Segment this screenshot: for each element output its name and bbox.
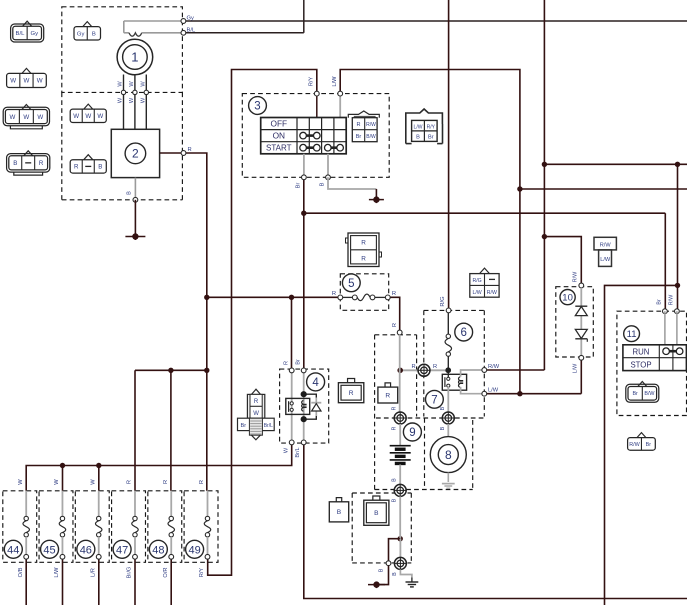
component K7 starter relay (7) <box>426 390 444 408</box>
wire Br/L (relay 4 down) and bottom rail <box>304 442 687 598</box>
svg-text:R: R <box>163 480 169 484</box>
box component 48 <box>148 491 182 563</box>
wire B/L (magneto up) <box>183 32 303 34</box>
svg-text:R/Y: R/Y <box>427 124 436 130</box>
svg-text:R: R <box>433 364 437 370</box>
svg-text:R: R <box>254 399 259 405</box>
svg-text:10: 10 <box>562 293 573 304</box>
wires W x3 magneto to rectifier <box>123 75 125 130</box>
svg-text:L/W: L/W <box>472 290 481 296</box>
component U2 rectifier/regulator (2) <box>111 129 159 177</box>
svg-text:W: W <box>140 81 146 87</box>
svg-text:L/R: L/R <box>90 568 96 577</box>
svg-text:W: W <box>90 479 96 485</box>
svg-text:B: B <box>127 191 133 195</box>
svg-text:46: 46 <box>80 544 92 556</box>
ground battery to frame <box>368 584 385 586</box>
svg-text:B: B <box>416 135 420 141</box>
wire R to fuse 5 <box>207 296 340 298</box>
svg-text:Gy: Gy <box>187 16 195 22</box>
svg-text:W: W <box>140 97 146 103</box>
svg-text:B: B <box>440 426 446 430</box>
wire Gy (magneto to CDI) <box>183 20 687 22</box>
svg-text:STOP: STOP <box>630 360 651 369</box>
svg-text:44: 44 <box>7 544 19 556</box>
wires below ignition coils 44-48 <box>25 557 27 605</box>
svg-text:L/W: L/W <box>332 76 338 87</box>
box component 3 (main switch) <box>242 94 389 178</box>
svg-text:R: R <box>392 426 398 430</box>
svg-text:R: R <box>332 291 336 297</box>
component D10 diode block (10) <box>560 290 575 305</box>
svg-text:START: START <box>266 144 292 153</box>
wire B rectifier to ground <box>134 178 136 200</box>
wire R to relay 4 <box>291 297 293 370</box>
fuse case R R (spare) <box>348 233 379 267</box>
wire R/W vertical <box>543 0 545 368</box>
svg-text:R: R <box>188 147 192 153</box>
ground main switch <box>369 199 384 201</box>
svg-text:L/W: L/W <box>488 388 499 394</box>
svg-text:Br: Br <box>646 442 652 448</box>
svg-text:49: 49 <box>188 544 200 556</box>
component BT9 battery (9) <box>403 423 421 441</box>
wire Br (main switch to stop switch) <box>303 177 305 370</box>
ground starter motor <box>447 473 449 482</box>
svg-text:R/W: R/W <box>488 364 500 370</box>
svg-text:W: W <box>129 97 135 103</box>
svg-text:W: W <box>37 78 43 85</box>
svg-text:R/W: R/W <box>487 290 497 296</box>
svg-text:B/L: B/L <box>187 27 196 33</box>
svg-text:R/G: R/G <box>440 296 446 306</box>
svg-text:R: R <box>385 392 390 399</box>
svg-text:B/L: B/L <box>16 31 26 37</box>
connector B-dash-R <box>24 151 33 156</box>
wire B to ground <box>328 177 376 189</box>
fuse cover R (single) <box>385 383 391 387</box>
svg-text:4: 4 <box>312 377 319 389</box>
svg-text:R/Y: R/Y <box>308 77 314 87</box>
component M8 starter motor (8) <box>442 412 454 424</box>
svg-text:3: 3 <box>254 101 260 113</box>
svg-text:B/W: B/W <box>366 134 376 140</box>
svg-text:R: R <box>349 390 354 397</box>
wire R/W to diode block <box>544 237 581 286</box>
relay 4 body <box>286 398 310 414</box>
svg-text:8: 8 <box>445 448 452 462</box>
connector R-W-Br-BrL cross <box>252 389 261 394</box>
svg-text:B: B <box>320 182 326 186</box>
wire R out of rectifier <box>160 152 184 154</box>
svg-text:R: R <box>361 256 366 263</box>
svg-text:ON: ON <box>273 131 285 141</box>
fuse cover R (double) <box>348 379 355 383</box>
svg-text:Br: Br <box>656 299 662 305</box>
wire W bus <box>26 442 292 490</box>
box components 8,9 divider <box>376 417 484 419</box>
svg-text:W: W <box>129 81 135 87</box>
svg-text:6: 6 <box>460 327 466 339</box>
svg-text:W: W <box>54 479 60 485</box>
svg-text:R: R <box>411 364 415 370</box>
connector W-W-W single <box>22 68 31 73</box>
box component 10 (diode) <box>556 287 594 357</box>
svg-text:W: W <box>73 113 79 120</box>
component K4 relay (4) <box>307 373 325 391</box>
connector W-W-W double <box>22 105 31 110</box>
battery cells <box>390 445 411 447</box>
svg-text:B: B <box>440 406 446 410</box>
switch contacts ON row <box>303 134 317 137</box>
connector circles Gy B/L <box>181 19 186 24</box>
component F5 fuse (5) <box>342 274 360 292</box>
svg-text:R/W: R/W <box>366 122 376 128</box>
relay 4 lead wires <box>291 370 293 442</box>
svg-text:48: 48 <box>152 544 164 556</box>
svg-text:47: 47 <box>116 544 128 556</box>
svg-text:W: W <box>37 114 43 121</box>
svg-text:W: W <box>97 113 103 120</box>
svg-text:R: R <box>392 291 396 297</box>
svg-text:11: 11 <box>627 329 637 340</box>
connector W-W-W inside box 2 <box>84 104 93 109</box>
main switch wires into table <box>316 94 318 118</box>
wire R/W right vertical to stop switch <box>677 164 679 311</box>
svg-text:B: B <box>392 498 398 502</box>
svg-text:R/W: R/W <box>573 271 579 282</box>
connector Br-B/W <box>638 382 647 387</box>
box component 9 (battery) <box>375 334 417 336</box>
pickup coil loops <box>123 21 125 33</box>
node junctions <box>542 162 547 167</box>
box component 5 (fuse) <box>340 274 388 311</box>
svg-text:W: W <box>18 479 24 485</box>
box component 1 (AC magneto) <box>62 7 183 93</box>
stop switch table <box>623 345 687 371</box>
svg-text:45: 45 <box>43 544 55 556</box>
box component 49 <box>184 491 218 563</box>
svg-text:O/B: O/B <box>18 567 24 577</box>
svg-text:Gy: Gy <box>31 31 39 37</box>
svg-text:B: B <box>92 31 96 37</box>
diode 1 <box>575 305 587 307</box>
svg-text:Br/L: Br/L <box>295 447 301 457</box>
svg-text:R/W: R/W <box>600 242 612 248</box>
svg-text:B: B <box>374 510 379 517</box>
svg-text:B: B <box>379 568 385 572</box>
bullet battery positive <box>394 412 406 424</box>
box component 4 (starting circuit cut-off relay) <box>280 369 329 443</box>
svg-text:Br/L: Br/L <box>264 423 273 429</box>
svg-text:R: R <box>356 122 360 128</box>
wire R/Y (main switch feed) <box>208 70 317 576</box>
box component 46 <box>75 491 109 563</box>
connector R-R/W-Br-B/W <box>348 111 379 118</box>
wire R/W branch right <box>544 163 687 165</box>
box component 2 (rectifier/regulator) <box>61 92 63 199</box>
svg-text:Br: Br <box>356 134 362 140</box>
svg-text:W: W <box>9 114 15 121</box>
bullet connector R (battery lead) <box>400 369 448 371</box>
svg-text:R: R <box>283 361 289 365</box>
bullet starter cable <box>399 539 401 558</box>
svg-text:B: B <box>337 509 342 516</box>
connector Gy-B <box>83 22 92 27</box>
svg-text:R: R <box>199 480 205 484</box>
svg-text:R: R <box>361 240 366 247</box>
svg-text:W: W <box>253 411 259 417</box>
svg-text:1: 1 <box>131 50 138 65</box>
box component 45 <box>39 491 73 563</box>
wire R/W relay to main harness <box>484 369 544 371</box>
box components 6,7 (fuse and starter relay) <box>424 309 485 311</box>
svg-text:B: B <box>13 160 17 167</box>
svg-text:W: W <box>118 81 124 87</box>
svg-text:W: W <box>24 78 30 85</box>
box component 44 <box>3 491 37 563</box>
svg-text:B: B <box>392 572 398 576</box>
stop switch contacts <box>666 350 680 353</box>
svg-text:Br: Br <box>296 359 302 365</box>
svg-text:R: R <box>39 160 44 167</box>
main switch lower wires Br and B <box>303 154 305 178</box>
svg-text:R: R <box>392 406 398 410</box>
svg-text:Br: Br <box>632 391 638 397</box>
svg-text:R: R <box>392 323 398 327</box>
svg-text:7: 7 <box>431 394 437 406</box>
box component 11 (engine stop switch) <box>617 311 687 415</box>
svg-text:2: 2 <box>132 147 139 161</box>
svg-text:L/W: L/W <box>54 567 60 578</box>
svg-text:W: W <box>23 114 29 121</box>
wire L/W relay row <box>484 393 581 395</box>
wire L/W branch right <box>520 188 687 190</box>
svg-text:Gy: Gy <box>77 31 85 37</box>
svg-text:B/W: B/W <box>644 391 655 397</box>
component U1 AC magneto (1) <box>117 39 153 75</box>
svg-text:L/W: L/W <box>600 257 611 263</box>
svg-text:5: 5 <box>348 278 354 290</box>
svg-text:W: W <box>85 113 91 120</box>
svg-text:R: R <box>127 480 133 484</box>
component S3 main switch (3) <box>249 97 267 115</box>
svg-text:Br: Br <box>241 423 247 429</box>
svg-text:L/W: L/W <box>573 363 579 373</box>
svg-text:R/Y: R/Y <box>199 568 205 578</box>
component S11 engine stop switch (11) <box>624 326 640 342</box>
svg-text:R: R <box>74 164 79 171</box>
wire R (rectifier output) <box>184 153 207 491</box>
svg-text:L/W: L/W <box>414 124 423 130</box>
relay 7 coil leads <box>461 370 485 377</box>
svg-text:W: W <box>283 447 289 453</box>
wire B battery negative <box>389 539 401 564</box>
svg-text:B: B <box>392 478 398 482</box>
svg-text:RUN: RUN <box>633 348 650 357</box>
svg-text:R/W: R/W <box>669 294 675 305</box>
svg-text:B: B <box>98 164 102 171</box>
svg-text:W: W <box>10 78 16 85</box>
svg-text:Br: Br <box>296 183 302 189</box>
component F6 fuse (6) <box>455 323 473 341</box>
wire R/W to frame <box>605 285 678 605</box>
wire relay to starter <box>447 387 449 412</box>
ground magneto B <box>125 236 145 238</box>
wire R bus to 47,48 <box>135 369 207 371</box>
svg-text:Br: Br <box>428 135 434 141</box>
battery negative lead <box>399 465 401 485</box>
svg-text:OFF: OFF <box>271 119 288 129</box>
connector L/W-R/Y-B-Br <box>406 109 443 124</box>
connector R/W-Br <box>637 433 646 438</box>
svg-text:W: W <box>118 97 124 103</box>
wire L/W (main switch to relay coil) <box>340 70 520 394</box>
wire R/G (to fuse 6) <box>448 0 450 310</box>
connector R/G-dash-L/W-R/W <box>480 268 490 274</box>
switch contacts START row <box>303 146 317 149</box>
connector R-dash-B <box>84 155 93 160</box>
box component 47 <box>112 491 146 563</box>
connector B/L-Gy <box>23 21 32 26</box>
box battery lead (B) <box>352 492 411 494</box>
svg-text:R/G: R/G <box>472 278 481 284</box>
ground starter cable <box>411 578 413 583</box>
svg-text:Br/G: Br/G <box>127 567 133 579</box>
svg-text:9: 9 <box>409 427 415 439</box>
main switch contact table <box>261 118 347 154</box>
relay 4 diode branch <box>304 394 317 397</box>
boxes B (battery lead covers) <box>336 498 341 502</box>
svg-text:O/R: O/R <box>163 567 169 577</box>
wire R fuse to battery <box>388 297 400 332</box>
diode 2 <box>575 329 587 338</box>
svg-text:R/W: R/W <box>629 442 640 448</box>
connector R/W L/W stack <box>594 237 616 250</box>
